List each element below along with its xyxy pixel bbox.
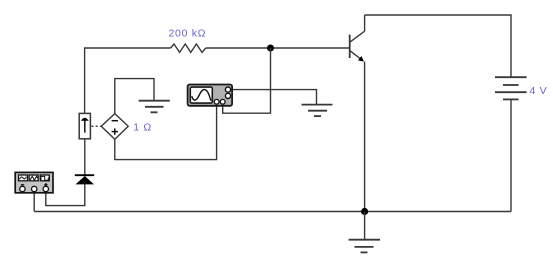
- ground symbol upper left: [139, 101, 170, 113]
- svg-text:200 kΩ: 200 kΩ: [169, 28, 207, 40]
- resistor R1: [171, 44, 206, 52]
- wire junction to transistor base: [271, 47, 350, 49]
- wire junction to ground stem: [364, 212, 366, 240]
- function generator XFG1: [15, 172, 53, 192]
- diode D1: [75, 175, 94, 184]
- wire junction down to oscilloscope channel B: [223, 48, 271, 113]
- wire node A horizontal (to resistor left lead): [84, 47, 171, 49]
- svg-text:1 Ω: 1 Ω: [133, 122, 152, 134]
- wire diode cathode to function generator plus: [46, 184, 85, 205]
- wire function generator common to bottom rail: [33, 193, 35, 212]
- wire resistor to junction: [206, 47, 271, 49]
- battery V1: [495, 77, 527, 99]
- wire top rail: [365, 15, 511, 77]
- wire collector up to top rail: [364, 15, 366, 31]
- wire battery bottom to bottom rail: [510, 99, 512, 211]
- node junction dot at emitter bottom: [361, 208, 368, 215]
- oscilloscope XSC1: [188, 85, 233, 106]
- node junction dot at base wire: [267, 45, 274, 52]
- wire oscilloscope channel A to dependent source plus: [115, 104, 217, 160]
- ground symbol bottom: [349, 240, 380, 253]
- wire dotted control link: [92, 125, 101, 127]
- current sensor I1 (box with arrow): [79, 113, 90, 138]
- svg-text:4 V: 4 V: [530, 85, 548, 97]
- dependent source V2 (CCVS diamond): [101, 114, 128, 140]
- wire dependent source top to ground: [115, 79, 154, 114]
- transistor Q1: [350, 31, 365, 61]
- wire bottom rail: [34, 211, 511, 213]
- ground symbol near oscilloscope: [302, 105, 333, 117]
- wire node A vertical (top-left down to current sensor): [84, 48, 86, 113]
- wire emitter down to bottom rail: [364, 62, 366, 212]
- wire current sensor to diode anode: [84, 139, 86, 175]
- wire oscilloscope ground terminal to ground: [230, 90, 317, 105]
